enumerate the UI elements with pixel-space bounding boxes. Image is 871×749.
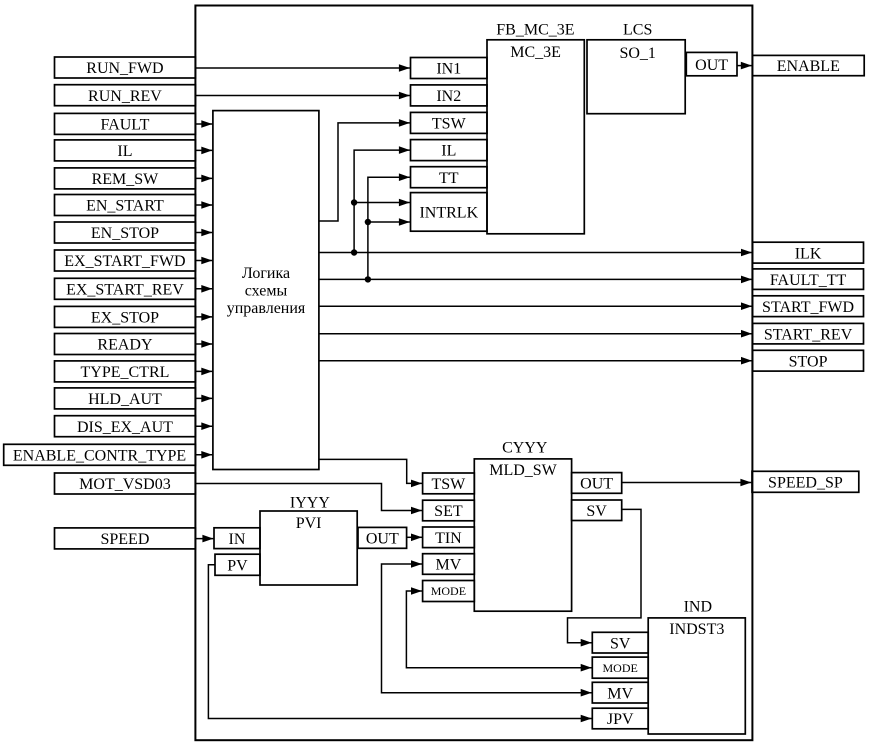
wire logic to ILK output <box>319 252 752 254</box>
input port ENABLE_CONTR_TYPE <box>4 444 196 465</box>
svg-text:INDST3: INDST3 <box>669 621 724 638</box>
svg-text:TT: TT <box>439 170 459 187</box>
svg-text:MC_3E: MC_3E <box>510 44 561 61</box>
pin SV (output) of MLD_SW <box>572 500 622 521</box>
output port START_REV <box>753 323 864 344</box>
pin PV of PVI <box>215 554 260 575</box>
svg-text:REM_SW: REM_SW <box>92 171 160 188</box>
system boundary frame <box>195 6 752 741</box>
junction dot on FAULT_TT line at TT tap <box>365 276 371 282</box>
pin OUT (output) of PVI <box>358 527 407 548</box>
svg-text:SET: SET <box>434 503 463 520</box>
svg-text:EN_STOP: EN_STOP <box>91 225 159 242</box>
pin IN1 of MC_3E <box>411 58 488 79</box>
svg-text:EN_START: EN_START <box>86 198 164 215</box>
wire FAULT into logic block <box>195 123 212 125</box>
svg-text:IN2: IN2 <box>436 88 461 105</box>
pin OUT of SO_1 <box>686 52 737 75</box>
block U:MC_3E body <box>487 40 584 234</box>
pin INTRLK of MC_3E <box>411 193 488 232</box>
svg-text:IN: IN <box>229 531 246 548</box>
svg-text:управления: управления <box>227 300 306 317</box>
svg-text:TSW: TSW <box>432 116 467 133</box>
pin MV of MLD_SW <box>423 554 475 575</box>
wire branch to TT of MC_3E <box>368 177 410 279</box>
wire PV to JPV of INDST3 <box>208 565 591 719</box>
pin MODE of INDST3 <box>592 657 648 678</box>
output port STOP <box>753 350 864 371</box>
pin IN of PVI <box>214 528 260 549</box>
logic block: Логика схемы управления <box>213 111 319 470</box>
svg-text:ENABLE: ENABLE <box>777 58 840 75</box>
svg-text:IL: IL <box>441 143 456 160</box>
pin SET of MLD_SW <box>423 500 475 521</box>
svg-text:JPV: JPV <box>607 711 634 728</box>
wire DIS_EX_AUT into logic block <box>195 425 212 427</box>
input port TYPE_CTRL <box>55 361 196 382</box>
wire EX_START_FWD into logic block <box>195 260 212 262</box>
svg-text:MOT_VSD03: MOT_VSD03 <box>79 476 171 493</box>
input port RUN_FWD <box>55 57 196 78</box>
junction dot on ILK line at IL tap <box>351 249 357 255</box>
block U:MLD_SW body <box>474 459 571 611</box>
junction dot on IL branch at INTRLK tap <box>351 199 357 205</box>
svg-text:OUT: OUT <box>580 476 613 493</box>
svg-text:SV: SV <box>586 503 607 520</box>
wire EN_START into logic block <box>195 204 212 206</box>
wire logic to START_FWD output <box>319 305 752 307</box>
pin MV of INDST3 <box>592 682 648 703</box>
pin TSW of MLD_SW <box>423 473 475 494</box>
wire TYPE_CTRL into logic block <box>195 370 212 372</box>
input port EX_START_FWD <box>55 250 196 271</box>
wire branch to INTRLK input 2 <box>368 221 410 223</box>
output port ENABLE <box>752 55 864 75</box>
wire MV net to MLD_SW and INDST3 <box>382 564 592 693</box>
input port DIS_EX_AUT <box>55 416 196 437</box>
wire logic to FAULT_TT output <box>319 278 752 280</box>
wire logic to START_REV output <box>319 333 752 335</box>
svg-text:START_REV: START_REV <box>764 326 853 343</box>
svg-text:FAULT: FAULT <box>100 117 149 134</box>
svg-text:FAULT_TT: FAULT_TT <box>770 272 847 289</box>
block U:SO_1 body <box>587 40 685 114</box>
svg-text:MV: MV <box>607 685 633 702</box>
svg-text:IND: IND <box>684 599 712 616</box>
wire IL into logic block <box>195 149 212 151</box>
svg-text:FB_MC_3E: FB_MC_3E <box>496 21 574 38</box>
svg-text:IL: IL <box>117 143 132 160</box>
wire ENABLE_CONTR_TYPE into logic block <box>195 454 212 456</box>
wire MODE net to MLD_SW and INDST3 <box>406 591 591 668</box>
wire MLD_SW SV to SV of INDST3 <box>568 509 642 642</box>
wire SPEED to IN of PVI <box>195 538 213 540</box>
svg-text:TYPE_CTRL: TYPE_CTRL <box>81 364 170 381</box>
svg-text:PV: PV <box>227 557 248 574</box>
svg-text:READY: READY <box>97 337 153 354</box>
input port MOT_VSD03 <box>55 473 196 494</box>
output port FAULT_TT <box>753 269 864 290</box>
input port IL <box>55 140 196 161</box>
wire REM_SW into logic block <box>195 177 212 179</box>
svg-text:LCS: LCS <box>623 21 652 38</box>
svg-text:SO_1: SO_1 <box>619 45 655 62</box>
wire branch to INTRLK input 1 <box>354 202 410 204</box>
svg-text:STOP: STOP <box>789 353 828 370</box>
wire logic to STOP output <box>319 360 752 362</box>
output port ILK <box>753 242 864 263</box>
input port EX_STOP <box>55 306 196 327</box>
svg-text:SV: SV <box>610 635 631 652</box>
svg-text:MODE: MODE <box>431 584 466 598</box>
svg-text:RUN_FWD: RUN_FWD <box>86 60 163 77</box>
svg-text:ENABLE_CONTR_TYPE: ENABLE_CONTR_TYPE <box>13 447 186 464</box>
output port SPEED_SP <box>752 471 859 492</box>
input port RUN_REV <box>55 85 196 106</box>
svg-text:MV: MV <box>436 557 462 574</box>
input port EN_STOP <box>55 222 196 243</box>
svg-text:схемы: схемы <box>245 283 288 300</box>
svg-text:MODE: MODE <box>603 661 638 675</box>
svg-text:EX_START_REV: EX_START_REV <box>66 281 184 298</box>
wire RUN_FWD to IN1 <box>195 67 410 69</box>
input port FAULT <box>55 113 196 134</box>
pin TT of MC_3E <box>411 167 488 188</box>
svg-text:SPEED_SP: SPEED_SP <box>768 474 843 491</box>
output port START_FWD <box>753 296 864 317</box>
svg-text:DIS_EX_AUT: DIS_EX_AUT <box>77 419 173 436</box>
pin SV of INDST3 <box>592 632 648 653</box>
wire logic to TSW of MC_3E <box>319 123 410 221</box>
pin IN2 of MC_3E <box>411 85 488 106</box>
wire MLD_SW OUT to SPEED_SP output <box>622 482 752 484</box>
input port REM_SW <box>55 168 196 189</box>
input port SPEED <box>55 528 196 549</box>
block U:INDST3 body <box>648 618 745 734</box>
svg-text:OUT: OUT <box>695 57 728 74</box>
wire EX_START_REV into logic block <box>195 288 212 290</box>
input port EX_START_REV <box>55 278 196 299</box>
wire logic to TSW of MLD_SW <box>319 459 422 483</box>
pin IL of MC_3E <box>411 140 488 161</box>
pin TIN of MLD_SW <box>423 527 475 548</box>
wire MOT_VSD03 to SET of MLD_SW <box>195 484 422 511</box>
wire branch to IL of MC_3E <box>354 150 410 252</box>
svg-text:TSW: TSW <box>432 476 467 493</box>
wire EX_STOP into logic block <box>195 316 212 318</box>
wire PVI OUT to TIN of MLD_SW <box>407 536 422 538</box>
svg-text:HLD_AUT: HLD_AUT <box>88 391 162 408</box>
svg-text:EX_START_FWD: EX_START_FWD <box>64 253 185 270</box>
input port HLD_AUT <box>55 388 196 409</box>
junction dot on TT branch at INTRLK tap <box>365 219 371 225</box>
svg-text:TIN: TIN <box>435 530 462 547</box>
wire RUN_REV to IN2 <box>195 95 410 97</box>
svg-text:ILK: ILK <box>795 245 822 262</box>
svg-text:IYYY: IYYY <box>290 494 330 511</box>
svg-text:IN1: IN1 <box>436 61 461 78</box>
svg-text:EX_STOP: EX_STOP <box>91 310 159 327</box>
pin OUT (output) of MLD_SW <box>572 473 622 494</box>
svg-text:OUT: OUT <box>366 531 399 548</box>
wire READY into logic block <box>195 343 212 345</box>
svg-text:CYYY: CYYY <box>502 440 548 457</box>
input port EN_START <box>55 195 196 216</box>
pin JPV of INDST3 <box>592 708 648 729</box>
svg-text:PVI: PVI <box>296 515 322 532</box>
svg-text:SPEED: SPEED <box>100 531 149 548</box>
wire HLD_AUT into logic block <box>195 397 212 399</box>
svg-text:MLD_SW: MLD_SW <box>489 462 557 479</box>
svg-text:INTRLK: INTRLK <box>419 205 478 222</box>
input port READY <box>55 334 196 355</box>
svg-text:Логика: Логика <box>242 265 290 282</box>
pin MODE of MLD_SW <box>423 581 475 602</box>
svg-text:START_FWD: START_FWD <box>762 299 854 316</box>
block U:PVI body <box>260 511 357 585</box>
svg-text:RUN_REV: RUN_REV <box>88 88 162 105</box>
pin TSW of MC_3E <box>411 112 488 133</box>
wire SO_1 OUT to ENABLE output <box>737 65 752 67</box>
wire EN_STOP into logic block <box>195 232 212 234</box>
